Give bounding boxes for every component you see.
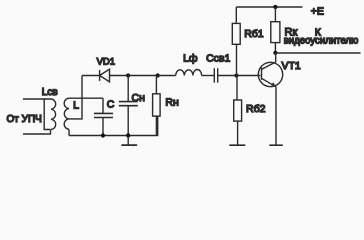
svg-text:VD1: VD1 [97, 57, 115, 68]
wire: base [237, 75, 261, 77]
svg-text:+E: +E [311, 5, 324, 17]
svg-text:Rб1: Rб1 [244, 28, 264, 40]
capacitor C [94, 98, 113, 135]
svg-text:L: L [73, 100, 79, 112]
resistor Rб1 [232, 7, 240, 76]
wire: collector vertical [275, 53, 277, 62]
resistor Rб2 [234, 76, 242, 145]
node: Cн top junction [126, 73, 130, 77]
wire: top rail to VD1 [82, 75, 100, 77]
svg-text:Lсв: Lсв [42, 87, 58, 98]
node: Cн bottom junction [126, 133, 130, 137]
svg-text:C: C [107, 99, 115, 111]
capacitor Cн [119, 76, 138, 136]
svg-text:Rб2: Rб2 [246, 103, 266, 115]
inductor Lф [176, 70, 202, 76]
node: base junction [234, 73, 238, 77]
diode VD1 [100, 69, 110, 82]
capacitor Cсв1 [214, 68, 217, 83]
wire: VD1 to Cн junction [110, 75, 129, 77]
wire: input bottom from От УПЧ [23, 130, 51, 135]
node: collector output junction [273, 51, 277, 55]
svg-text:Cн: Cн [132, 92, 146, 104]
svg-text:От УПЧ: От УПЧ [7, 114, 42, 125]
wire: Cсв1 to base junction [218, 75, 237, 77]
svg-text:видеоусилителю: видеоусилителю [284, 36, 359, 47]
wire: output to video amplifier [275, 52, 360, 54]
svg-text:Cсв1: Cсв1 [206, 53, 230, 65]
ground terminal under emitter [269, 144, 283, 146]
inductor L (secondary winding) [64, 98, 69, 129]
wire: +E supply rail [236, 6, 302, 8]
node: Rк top junction [273, 5, 277, 9]
transistor VT1 [258, 62, 282, 145]
ground symbol [121, 136, 137, 146]
node: C bottom junction [101, 133, 105, 137]
svg-text:Rн: Rн [165, 96, 179, 108]
resistor Rн [153, 76, 161, 136]
wire: rail Rн to Lф [158, 75, 176, 77]
wire: tap from L to diode rail [69, 76, 82, 119]
resistor Rк [271, 7, 280, 53]
wire: L top to capacitor C [69, 97, 103, 99]
svg-text:VT1: VT1 [282, 60, 301, 72]
wire: input top from От УПЧ [23, 98, 44, 100]
wire: rail Cн to Rн [128, 75, 158, 77]
node: Rн top junction [156, 73, 160, 77]
svg-text:Lф: Lф [183, 53, 198, 65]
wire: Lф to Cсв1 [202, 75, 215, 77]
wire: bottom rail [69, 116, 158, 135]
ground terminal under Rб2 [229, 144, 245, 146]
wire: L bottom to rail [68, 129, 70, 135]
inductor Lсв (primary winding) [44, 99, 56, 130]
